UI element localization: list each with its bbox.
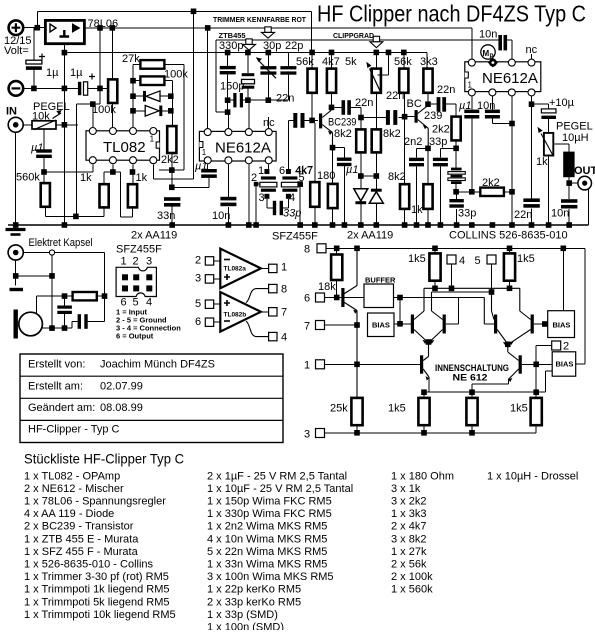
- svg-text:TL082a: TL082a: [224, 266, 247, 273]
- svg-text:HF Clipper nach DF4ZS Typ C: HF Clipper nach DF4ZS Typ C: [317, 1, 586, 27]
- node jack junction: [13, 273, 19, 279]
- transistor Q2 BC239: [415, 105, 429, 149]
- node minus-cap junction: [31, 86, 37, 92]
- arrow symbol inside 78L06: [73, 24, 80, 32]
- svg-text:33p: 33p: [458, 208, 476, 220]
- resistor R17 3k3: [423, 52, 432, 104]
- transistor Q6 cell: [484, 298, 507, 346]
- resistor R30 1k5: [531, 398, 542, 433]
- inductor L1 10uH: [563, 152, 574, 225]
- node resistor left junction: [62, 293, 68, 299]
- node rail52 junction: [62, 50, 68, 56]
- svg-text:4 x 10n Wima MKS RM5: 4 x 10n Wima MKS RM5: [207, 533, 327, 545]
- resistor R26 1k5: [504, 248, 515, 288]
- wire diode node: [361, 152, 377, 190]
- node 1k5a top junction: [432, 246, 438, 252]
- node bias2 top junction: [561, 246, 567, 252]
- node d1 left junction: [130, 93, 136, 99]
- resistor R9 56k: [308, 52, 317, 120]
- microphone MIC1: [14, 310, 43, 339]
- svg-text:02.07.99: 02.07.99: [100, 381, 143, 393]
- svg-text:3 x 100n Wima MKS RM5: 3 x 100n Wima MKS RM5: [207, 571, 334, 583]
- svg-text:2: 2: [133, 256, 139, 268]
- resistor R7 1k: [100, 172, 113, 207]
- svg-text:NE 612: NE 612: [453, 373, 488, 384]
- svg-text:1: 1: [121, 256, 127, 268]
- wire buffer to bias drop: [399, 298, 401, 324]
- transistor Q7 cell: [510, 315, 553, 346]
- svg-text:1 x 33p (SMD): 1 x 33p (SMD): [207, 609, 278, 621]
- svg-text:5: 5: [195, 298, 201, 310]
- capacitor C11 33p series: [273, 199, 289, 215]
- pin circles NE612A2 bottom: [204, 157, 272, 164]
- pin square 1 inn: [316, 360, 421, 369]
- node q7 base junction: [542, 321, 548, 327]
- wire minus rail: [23, 87, 78, 89]
- node 2k2 fb junction: [169, 167, 175, 173]
- filter FL3 Collins: [448, 168, 465, 192]
- svg-text:1µ: 1µ: [46, 67, 59, 79]
- capacitor C13 22n s1 out: [334, 100, 361, 129]
- svg-text:M: M: [483, 49, 490, 58]
- filter FL2 SFZ455F: [281, 120, 298, 198]
- svg-text:10µH: 10µH: [562, 132, 589, 144]
- node 2k2 bottom junction: [453, 146, 459, 152]
- svg-text:6: 6: [195, 316, 201, 328]
- node pin7 junction: [354, 322, 360, 328]
- node fb left r junction: [130, 78, 136, 84]
- svg-text:+10µ: +10µ: [549, 97, 575, 109]
- node d1 right junction: [168, 93, 174, 99]
- wire ZTB bottom jog: [216, 111, 228, 113]
- svg-text:33p: 33p: [283, 208, 301, 220]
- svg-text:Erstellt von:: Erstellt von:: [28, 359, 85, 371]
- node collector junction s1: [329, 105, 335, 111]
- resistor R6 2k2: [167, 126, 176, 187]
- svg-text:8k2: 8k2: [388, 171, 406, 183]
- capacitor C7 u1: [36, 149, 93, 172]
- transistor Q5 cell: [430, 292, 459, 344]
- measuring point Mp circle: [481, 45, 495, 60]
- svg-text:1 x 526-8635-010 - Collins: 1 x 526-8635-010 - Collins: [24, 559, 154, 571]
- transistor Q3 inn input: [341, 248, 357, 398]
- svg-text:18k: 18k: [318, 281, 336, 293]
- svg-text:3: 3: [195, 273, 201, 285]
- node 10n tie junction: [509, 121, 515, 127]
- node collins out junction: [453, 189, 459, 195]
- svg-text:5 x 22n Wima MKS RM5: 5 x 22n Wima MKS RM5: [207, 546, 327, 558]
- svg-text:2k2: 2k2: [161, 154, 179, 166]
- svg-text:NE612A: NE612A: [215, 140, 271, 157]
- capacitor C22 10n u4: [485, 97, 512, 124]
- node plus junction: [35, 25, 41, 31]
- wire out ground return: [588, 189, 590, 226]
- svg-text:7: 7: [304, 321, 310, 333]
- wire 27k return: [159, 169, 184, 171]
- svg-text:1: 1: [281, 262, 287, 274]
- wire mic out: [42, 322, 78, 329]
- pin2 dot and ground wire: [254, 182, 260, 225]
- node gnd-drop junction: [62, 86, 68, 92]
- resistor R27 25k: [351, 398, 362, 433]
- node 33n top junction: [169, 185, 175, 191]
- parts column 1: [24, 470, 176, 621]
- node 1k5b bus junction: [507, 286, 513, 292]
- bias block 2: [548, 248, 575, 337]
- pin5 dot ground drop: [298, 182, 303, 225]
- wire +12V top rail: [37, 10, 311, 12]
- node rail 4k7 junction: [329, 50, 335, 56]
- resistor R3 100k: [108, 28, 117, 131]
- node 150p right junction: [245, 97, 251, 103]
- svg-text:33p: 33p: [429, 136, 447, 148]
- ground rail junctions: [13, 222, 572, 228]
- clippgrad arrow over 5k: [370, 36, 383, 47]
- node pin7 junction: [130, 169, 136, 175]
- svg-text:2n2: 2n2: [404, 136, 422, 148]
- op-amp TL082b: [220, 292, 261, 332]
- capacitor C6 22p: [268, 53, 296, 101]
- resistor R20 8k2: [400, 117, 409, 225]
- wire mic plus feed: [36, 296, 64, 316]
- resistor R23 mic bias: [65, 292, 105, 300]
- wire p3 ground drop: [248, 164, 250, 225]
- svg-text:1 x Trimmer 3-30 pf (rot) RM5: 1 x Trimmer 3-30 pf (rot) RM5: [24, 571, 169, 583]
- svg-text:Elektret Kapsel: Elektret Kapsel: [29, 237, 93, 249]
- resistor R12 8k2: [356, 129, 365, 152]
- svg-text:56k: 56k: [394, 56, 412, 68]
- wire 6V output of regulator: [84, 27, 471, 29]
- pin square 4 inn: [447, 255, 456, 288]
- connector body SFZ455F: [116, 267, 156, 296]
- svg-text:4k7: 4k7: [322, 56, 340, 68]
- connector J3 IN: [8, 117, 23, 132]
- svg-text:2 x BC239 - Transistor: 2 x BC239 - Transistor: [24, 521, 134, 533]
- node emitters right junction: [505, 342, 511, 348]
- pin circles NE612A3 top: [468, 59, 535, 66]
- node rail wiper junction: [386, 50, 392, 56]
- wire p7 riser: [227, 112, 229, 128]
- svg-text:10n: 10n: [212, 210, 230, 222]
- node d2 left junction: [130, 108, 136, 114]
- svg-text:33n: 33n: [157, 210, 175, 222]
- svg-text:2 x 33p kerKo RM5: 2 x 33p kerKo RM5: [207, 596, 301, 608]
- node bottom junctions: [354, 430, 475, 436]
- svg-text:10n: 10n: [551, 208, 569, 220]
- svg-text:1 x Trimmpoti 1k liegend RM5: 1 x Trimmpoti 1k liegend RM5: [24, 584, 170, 596]
- capacitor C24 10u: [541, 109, 556, 133]
- buffer block: [345, 276, 485, 308]
- wire rail52: [64, 51, 427, 53]
- svg-text:1k5: 1k5: [510, 403, 528, 415]
- pin square 6 inn: [316, 293, 342, 302]
- svg-text:TRIMMER KENNFARBE ROT: TRIMMER KENNFARBE ROT: [213, 15, 306, 24]
- svg-text:22n: 22n: [276, 93, 294, 105]
- node q1 base junction: [334, 295, 340, 301]
- capacitor C16 22n s2 out: [431, 97, 456, 117]
- node rail q8 junction: [421, 389, 427, 395]
- wire jack sleeve drop: [16, 255, 52, 328]
- wire 33n to NE612 u1 link: [175, 186, 209, 188]
- node pin5 junction: [297, 181, 303, 187]
- resonator X1 ZTB455: [242, 53, 255, 101]
- node emitter junction s1: [330, 145, 336, 151]
- wire TL082 pin1 up: [92, 104, 94, 127]
- svg-text:1k: 1k: [536, 156, 548, 168]
- node buffer out junction: [397, 295, 403, 301]
- wire pin6 network: [113, 164, 133, 217]
- node cap bottom junction: [62, 325, 68, 331]
- capacitor C27 mic series: [78, 296, 105, 329]
- svg-text:IN: IN: [6, 106, 17, 118]
- svg-text:150p: 150p: [220, 81, 244, 93]
- wire mic top: [23, 253, 104, 297]
- svg-text:2 x 56k: 2 x 56k: [391, 559, 427, 571]
- diode D3 AA119 down: [354, 189, 368, 225]
- pin 6 TL082b: [195, 316, 220, 328]
- svg-text:22p: 22p: [285, 40, 303, 52]
- svg-text:COLLINS 526-8635-010: COLLINS 526-8635-010: [449, 230, 568, 242]
- pin square 2 inn: [536, 341, 561, 398]
- capacitor C26 mic bypass: [57, 296, 72, 328]
- svg-text:1: 1: [202, 148, 207, 157]
- node 6V x112 junction: [110, 25, 116, 31]
- svg-text:27k: 27k: [122, 53, 140, 65]
- svg-text:239: 239: [424, 110, 442, 122]
- capacitor C23 22n out: [523, 198, 539, 207]
- resistor R28 1k5: [418, 392, 429, 433]
- node rail right junction: [533, 389, 539, 395]
- svg-text:6: 6: [304, 293, 310, 305]
- pin 3 TL082a: [195, 273, 220, 285]
- ground symbol left: [6, 225, 26, 235]
- mixer U4 NE612A box: [465, 62, 541, 92]
- resistor R13 8k2: [372, 129, 381, 152]
- node emitter junction s2: [425, 146, 431, 152]
- svg-text:3 x 8k2: 3 x 8k2: [391, 533, 426, 545]
- stub p5 nc: [268, 117, 270, 128]
- svg-text:22n: 22n: [437, 84, 455, 96]
- svg-text:1 x 78L06 - Spannungsregler: 1 x 78L06 - Spannungsregler: [24, 496, 166, 508]
- svg-text:3k3: 3k3: [420, 56, 438, 68]
- capacitor C25 10n out: [561, 199, 577, 208]
- svg-text:3: 3: [259, 192, 265, 204]
- diamond mark p7: [488, 58, 498, 68]
- svg-text:1 x 10µH - Drossel: 1 x 10µH - Drossel: [487, 470, 578, 482]
- node 18k top junction: [334, 246, 340, 252]
- svg-text:HF-Clipper - Typ C: HF-Clipper - Typ C: [28, 424, 120, 436]
- capacitor C2 1u tantal: [78, 74, 112, 96]
- svg-text:100k: 100k: [92, 104, 116, 116]
- wire TL082 pin3 feedback riser: [133, 64, 140, 127]
- info table: [20, 354, 283, 443]
- svg-text:1k: 1k: [80, 172, 92, 184]
- resistor R29 bias: [466, 398, 477, 433]
- wire inn top rail: [326, 248, 585, 364]
- node rail 56k junction: [309, 50, 315, 56]
- svg-text:1 x 150p Wima FKC RM5: 1 x 150p Wima FKC RM5: [207, 496, 332, 508]
- trimmer C5 30p: [256, 53, 277, 101]
- node 30p bottom junction: [266, 97, 272, 103]
- wire base s1: [312, 119, 318, 121]
- svg-text:BUFFER: BUFFER: [365, 276, 396, 285]
- pin circles TL082 top: [89, 128, 157, 135]
- capacitor C17 2n2: [409, 158, 424, 225]
- node 6V x208 junction: [205, 25, 211, 31]
- node tl082 pin1 feed junction: [90, 101, 96, 107]
- wire pin5 input: [92, 164, 94, 172]
- wire +12V riser: [36, 11, 38, 27]
- trimmer wiper drop: [43, 129, 45, 149]
- pin circles NE612A2 top: [204, 129, 272, 136]
- pin 5 TL082b: [195, 298, 220, 310]
- svg-text:4k7: 4k7: [295, 165, 313, 177]
- svg-text:1 x 180 Ohm: 1 x 180 Ohm: [391, 470, 454, 482]
- capacitor C12 22n stage1 in: [288, 113, 317, 128]
- wire ZTB455 top line: [216, 40, 499, 112]
- svg-text:5k: 5k: [345, 56, 357, 68]
- pin pads SFZ455F: [122, 274, 152, 291]
- node 22n junction s2: [358, 115, 364, 121]
- svg-text:6: 6: [279, 165, 285, 177]
- node p4 junction: [529, 101, 535, 107]
- svg-text:1: 1: [304, 360, 310, 372]
- capacitor C19 33p collins: [449, 195, 463, 225]
- resistor R25 1k5: [429, 248, 440, 288]
- svg-text:1 x SFZ 455 F - Murata: 1 x SFZ 455 F - Murata: [24, 546, 139, 558]
- node diode left junction: [358, 173, 364, 179]
- capacitor C20 10n top: [498, 35, 511, 59]
- wire emitter rail: [424, 391, 545, 393]
- svg-text:1k5: 1k5: [388, 403, 406, 415]
- svg-text:OUT: OUT: [574, 165, 595, 177]
- svg-text:1: 1: [468, 81, 473, 90]
- wire p4 down: [531, 97, 533, 105]
- wire collector bus B: [432, 292, 495, 320]
- svg-text:2: 2: [563, 341, 569, 353]
- node base junction s1: [309, 118, 315, 124]
- resistor R21 2k2: [480, 188, 512, 196]
- regulator U2 78L06 box: [45, 20, 84, 43]
- wire emitter net s2: [417, 148, 429, 184]
- svg-text:330p: 330p: [219, 40, 243, 52]
- svg-text:Volt=: Volt=: [4, 45, 29, 57]
- svg-text:BC: BC: [407, 98, 422, 110]
- node q8 base tee junction: [533, 362, 539, 368]
- node pin1 junction: [354, 362, 360, 368]
- wire p8 supply riser: [207, 28, 209, 128]
- svg-text:180: 180: [317, 170, 335, 182]
- wire fb right riser: [172, 81, 174, 126]
- capacitor C1 1u: [26, 28, 45, 89]
- node top rail junction x193: [191, 9, 197, 15]
- node 1k5b top junction: [507, 246, 513, 252]
- svg-text:6 = Output: 6 = Output: [116, 332, 154, 341]
- svg-text:2 x 100k: 2 x 100k: [391, 571, 433, 583]
- svg-text:3: 3: [304, 429, 310, 441]
- node rail 5k junction: [374, 50, 380, 56]
- svg-text:560k: 560k: [16, 172, 40, 184]
- pin 7 TL082b: [261, 307, 287, 319]
- mixer U3 NE612A box: [199, 131, 276, 161]
- node ZTB bottom junction: [225, 109, 231, 115]
- pin 1 TL082a: [261, 262, 287, 274]
- node circle-line junction: [49, 273, 55, 279]
- svg-text:Geändert am:: Geändert am:: [28, 402, 95, 414]
- resistor R2 560k: [41, 175, 104, 217]
- connector J4 OUT: [569, 176, 591, 190]
- resistor R15 4k7: [310, 123, 319, 225]
- diode D1 AA119: [133, 91, 171, 102]
- svg-text:1k: 1k: [136, 172, 148, 184]
- pin circles NE612A3 bottom: [468, 89, 535, 96]
- svg-text:5: 5: [475, 255, 481, 267]
- wire emitter net s1: [333, 148, 345, 184]
- ground symbol mic: [10, 288, 24, 291]
- node 1k5a bus junction: [432, 286, 438, 292]
- trimmer R11 5k: [366, 52, 388, 129]
- svg-text:08.08.99: 08.08.99: [100, 402, 143, 414]
- svg-text:SFZ455F: SFZ455F: [272, 231, 318, 243]
- pin square 3 inn: [316, 429, 537, 438]
- svg-text:1: 1: [258, 165, 264, 177]
- node pin6 junction: [110, 169, 116, 175]
- resistor R19 1k s2: [423, 184, 432, 225]
- op-amp TL082a: [220, 249, 261, 289]
- parts column 2: [207, 470, 353, 633]
- svg-text:2: 2: [195, 255, 201, 267]
- resistor R24 18k: [331, 248, 342, 297]
- node diode right junction: [374, 173, 380, 179]
- parts column 3: [391, 470, 454, 595]
- svg-text:Joachim Münch DF4ZS: Joachim Münch DF4ZS: [100, 359, 215, 371]
- capacitor C15 22n s2 in: [361, 110, 405, 125]
- svg-text:1 x 10µF - 25 V RM 2,5 Tantal: 1 x 10µF - 25 V RM 2,5 Tantal: [207, 483, 353, 495]
- svg-text:1 x 33n Wima MKS RM5: 1 x 33n Wima MKS RM5: [207, 559, 327, 571]
- plus terminal J1: [9, 20, 24, 35]
- transistor Q8 bottom left: [420, 342, 429, 392]
- node bypass junction: [97, 86, 103, 92]
- svg-text:TL082b: TL082b: [224, 312, 247, 319]
- wire +12 drop to rail52: [311, 11, 313, 52]
- capacitor C4 150p series: [228, 93, 268, 107]
- node bias mid junction: [73, 214, 79, 220]
- node 2k2 right junction: [509, 189, 515, 195]
- svg-text:BIAS: BIAS: [553, 321, 571, 330]
- resistor R10 4k7: [327, 52, 336, 107]
- wire regulator ground drop: [63, 44, 65, 225]
- node 330p top junction: [225, 50, 231, 56]
- wire 22n drop: [531, 104, 533, 225]
- svg-text:1 x Trimmpoti 5k liegend RM5: 1 x Trimmpoti 5k liegend RM5: [24, 596, 170, 608]
- svg-text:3 x 1k: 3 x 1k: [391, 483, 421, 495]
- node mic out junction: [49, 325, 55, 331]
- svg-text:1 x TL082 - OPAmp: 1 x TL082 - OPAmp: [24, 470, 120, 482]
- svg-text:1 x 560k: 1 x 560k: [391, 584, 433, 596]
- wire collins to 2k2: [456, 191, 480, 193]
- svg-text:TL082: TL082: [103, 139, 146, 156]
- capacitor C10 10n: [220, 164, 236, 225]
- node 10k out junction: [62, 122, 68, 128]
- stub p5 nc right: [531, 54, 533, 59]
- svg-text:10n: 10n: [479, 29, 497, 41]
- node 560k top junction: [41, 169, 47, 175]
- svg-text:NE612A: NE612A: [482, 70, 538, 87]
- node resonator top junction: [245, 50, 251, 56]
- filter FL1 SFZ455F: [260, 169, 277, 208]
- node out junction: [566, 180, 572, 186]
- svg-text:4: 4: [459, 255, 465, 267]
